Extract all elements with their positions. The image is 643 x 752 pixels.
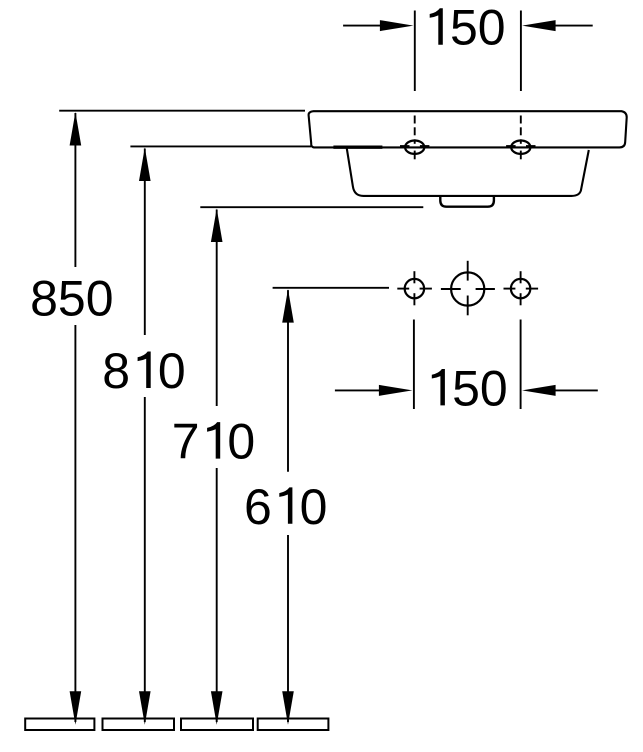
- svg-text:0: 0: [227, 414, 255, 470]
- 710 top arrowhead: [211, 209, 223, 243]
- floor tile 2: [103, 719, 175, 731]
- 850 dimension reference line: [59, 110, 305, 112]
- 850 bottom arrowhead: [70, 691, 82, 725]
- left tap hole ellipse: [405, 141, 424, 154]
- rim underside thick edge: [333, 145, 382, 148]
- bottom 150 dimension line left with arrow: [335, 385, 413, 396]
- 710 label: [172, 414, 255, 470]
- 610 dimension vertical line: [287, 290, 289, 722]
- svg-text:8: 8: [102, 343, 130, 399]
- floor tile 4: [258, 719, 329, 731]
- svg-text:0: 0: [478, 0, 506, 56]
- 810 label: [102, 343, 185, 399]
- bottom 150 label: [432, 360, 508, 416]
- bottom 150 dimension line right with arrow: [522, 385, 598, 396]
- 710 dimension reference line: [200, 206, 423, 208]
- 810 dimension vertical line: [144, 149, 146, 723]
- svg-text:0: 0: [480, 360, 508, 416]
- top 150 label: [430, 0, 506, 56]
- right tap hole center lines (dashed): [506, 116, 535, 160]
- 610 label: [244, 479, 327, 535]
- hole pattern: large circle center: [441, 261, 495, 316]
- drain fitting: [440, 197, 494, 207]
- right tap hole ellipse: [511, 141, 530, 154]
- svg-text:8: 8: [30, 271, 58, 327]
- 810 bottom arrowhead: [139, 691, 151, 725]
- top 150 dimension line left with arrow: [343, 20, 413, 31]
- 850 top arrowhead: [70, 112, 82, 146]
- svg-text:7: 7: [172, 414, 200, 470]
- bottom 150 dimension extension lines: [414, 320, 521, 410]
- top 150 dimension line right with arrow: [522, 20, 593, 31]
- 610 bottom arrowhead: [282, 691, 294, 725]
- svg-text:6: 6: [244, 479, 272, 535]
- svg-text:5: 5: [452, 360, 480, 416]
- 850 dimension vertical line: [74, 113, 76, 722]
- svg-text:0: 0: [158, 343, 186, 399]
- floor tile 3: [181, 719, 253, 731]
- svg-text:5: 5: [450, 0, 478, 56]
- 810 top arrowhead: [139, 148, 151, 182]
- 610 dimension reference line: [273, 287, 389, 289]
- hole pattern: small circle left: [397, 271, 432, 305]
- washbasin rim (side view): [309, 111, 627, 147]
- hole pattern: small circle right: [504, 271, 539, 305]
- 710 bottom arrowhead: [211, 691, 223, 725]
- floor tile 1: [25, 719, 94, 731]
- svg-text:0: 0: [300, 479, 328, 535]
- svg-text:5: 5: [58, 271, 86, 327]
- svg-text:0: 0: [86, 271, 114, 327]
- 710 dimension vertical line: [216, 210, 218, 723]
- 610 top arrowhead: [282, 289, 294, 323]
- 810 dimension reference line: [130, 145, 311, 147]
- left tap hole center lines (dashed): [400, 116, 429, 160]
- washbasin body (side view): [347, 148, 589, 196]
- top 150 dimension extension lines: [415, 11, 521, 92]
